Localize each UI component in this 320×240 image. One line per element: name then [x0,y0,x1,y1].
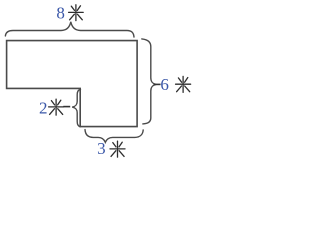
right dimension brace (6 米 span) [142,39,156,124]
leader dash to label 6 米 [154,83,161,85]
svg-text:3: 3 [97,139,106,158]
character 米 (right label) [176,76,191,92]
svg-text:6: 6 [160,75,169,94]
top dimension brace (8 米 span) [5,22,134,37]
leader dash from label 2 米 [63,106,70,108]
character 米 (top label) [69,5,84,21]
svg-text:2: 2 [39,98,48,117]
svg-text:8: 8 [56,4,65,23]
character 米 (bottom label) [110,141,125,157]
character 米 (left label) [49,99,64,115]
L-shaped figure outline [7,41,138,127]
left dimension brace (2 米 span) [72,89,80,126]
bottom dimension brace (3 米 span) [85,130,143,143]
